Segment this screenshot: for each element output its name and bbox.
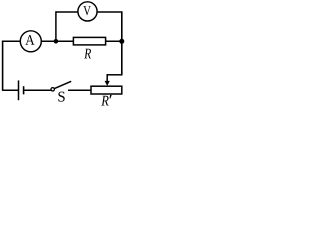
arrowhead of rheostat wiper — [105, 81, 110, 86]
wire: rheostat wiper arrow shaft — [106, 74, 108, 82]
battery: short plate (negative) — [23, 86, 25, 94]
wire: battery positive to switch pivot — [24, 89, 51, 91]
label S — [58, 92, 64, 102]
wire: switch contact to rheostat — [68, 89, 92, 91]
wire: middle row horizontal (ammeter/resistor row) — [2, 40, 122, 42]
label R — [84, 49, 91, 59]
wire: top row horizontal (voltmeter branch) — [56, 11, 122, 13]
label R' — [101, 96, 108, 106]
rheostat R' body — [91, 86, 122, 94]
battery: long plate (positive) — [18, 80, 20, 100]
switch S pivot circle — [51, 88, 54, 91]
voltmeter V — [78, 2, 97, 21]
ammeter A — [20, 31, 41, 52]
switch S lever (open) — [54, 81, 71, 88]
node: junction dot at voltmeter tap — [54, 39, 59, 44]
wire: voltmeter branch vertical drop — [55, 11, 57, 41]
wire: right rail vertical — [121, 11, 123, 75]
wire: rheostat wiper feed horizontal — [107, 74, 123, 76]
node: junction dot at right rail — [119, 39, 124, 44]
wire: left rail vertical — [2, 41, 4, 91]
resistor R (fixed) — [73, 37, 105, 45]
label prime of R' — [110, 95, 112, 99]
wire: bottom row battery to switch — [2, 89, 18, 91]
